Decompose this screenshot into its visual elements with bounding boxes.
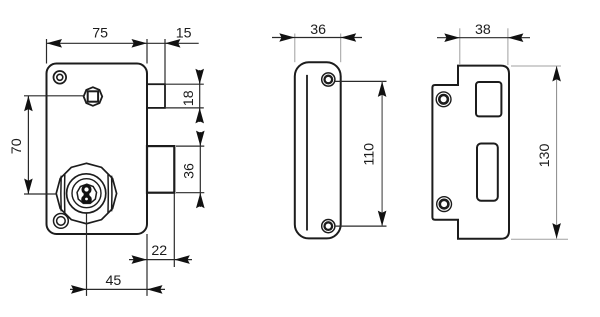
svg-text:15: 15 [176, 25, 192, 41]
svg-text:75: 75 [92, 25, 108, 41]
svg-text:130: 130 [537, 144, 553, 168]
svg-text:36: 36 [182, 163, 198, 179]
svg-text:22: 22 [151, 243, 167, 259]
svg-text:70: 70 [9, 138, 25, 154]
svg-text:110: 110 [361, 143, 377, 166]
svg-text:38: 38 [475, 22, 491, 38]
svg-text:45: 45 [106, 273, 122, 289]
svg-text:36: 36 [310, 22, 326, 38]
svg-text:18: 18 [181, 90, 197, 106]
